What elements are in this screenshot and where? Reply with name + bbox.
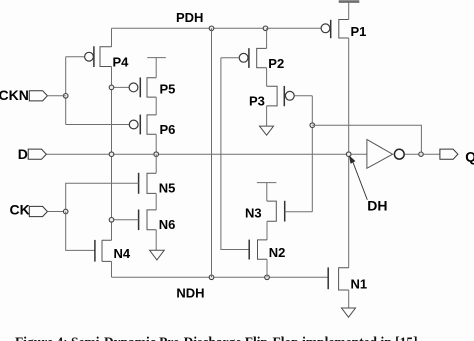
node CK junction bbox=[63, 209, 68, 214]
transistor N2 bbox=[249, 240, 285, 260]
wire DH down to N1 bbox=[348, 154, 350, 268]
wire CKN to P6 gate bbox=[66, 124, 129, 126]
vdd bar P5 bbox=[147, 58, 166, 78]
transistor P4 bbox=[66, 28, 129, 69]
transistor P5 bbox=[112, 58, 176, 98]
wire vertical B (P2/N2 gates) bbox=[221, 58, 249, 250]
svg-text:P5: P5 bbox=[160, 82, 176, 97]
svg-text:N4: N4 bbox=[114, 246, 131, 261]
wire feedback vertical right of P3 bbox=[311, 96, 313, 212]
node PDH-P2 bbox=[263, 26, 268, 31]
svg-text:Q: Q bbox=[465, 148, 474, 164]
wire N5 gate to CK bbox=[66, 183, 139, 211]
transistor P3 bbox=[249, 68, 312, 109]
node X P5 tap bbox=[109, 85, 114, 90]
svg-text:D: D bbox=[18, 146, 28, 162]
node CKN junction bbox=[63, 94, 68, 99]
wire PDH rail bbox=[112, 27, 321, 29]
wire P1 drain to DH bbox=[348, 38, 350, 154]
wire P6 drain to D line bbox=[155, 134, 157, 154]
svg-text:CKN: CKN bbox=[0, 87, 29, 103]
vdd bar P1 bbox=[339, 0, 360, 3]
svg-text:P3: P3 bbox=[249, 94, 265, 109]
wire CK vertical to N4 gate bbox=[66, 212, 95, 251]
wire P4 source from rail bbox=[111, 28, 113, 47]
wire P5-P6 bbox=[155, 97, 157, 115]
svg-text:P1: P1 bbox=[351, 24, 367, 39]
svg-text:N2: N2 bbox=[269, 245, 286, 260]
transistor N3 bbox=[245, 183, 312, 222]
node D-X bbox=[109, 152, 114, 157]
DH pointer arrow bbox=[349, 155, 388, 213]
wire N6 gate to node X bbox=[112, 219, 139, 221]
svg-text:CK: CK bbox=[10, 201, 30, 217]
vdd bar N3 bbox=[257, 183, 277, 202]
svg-text:NDH: NDH bbox=[176, 285, 204, 300]
svg-text:N5: N5 bbox=[159, 180, 176, 195]
node X N6 tap bbox=[109, 218, 114, 223]
wire D/DH line bbox=[46, 153, 367, 155]
node D-Y bbox=[154, 152, 159, 157]
ground under P3 bbox=[260, 106, 274, 135]
wire P4 gate to CKN line bbox=[66, 56, 85, 58]
wire P5 gate from node X bbox=[112, 86, 129, 88]
svg-text:PDH: PDH bbox=[176, 10, 203, 25]
wire N4 source to NDH bbox=[111, 261, 113, 277]
port CK bbox=[10, 201, 66, 217]
svg-text:N3: N3 bbox=[245, 205, 262, 220]
port CKN bbox=[0, 87, 66, 103]
wire NDH rail bbox=[112, 276, 329, 278]
svg-text:P4: P4 bbox=[113, 55, 130, 70]
wire N3 source to N2 bbox=[266, 221, 268, 240]
transistor P2 bbox=[221, 28, 284, 71]
wire P1 source bbox=[348, 2, 350, 20]
figure caption (cut off at bottom) bbox=[15, 335, 474, 341]
svg-text:N1: N1 bbox=[351, 276, 368, 291]
wire N2 source to NDH bbox=[266, 259, 268, 277]
node DH bbox=[346, 152, 351, 157]
transistor P1 bbox=[321, 2, 366, 40]
node feedback bbox=[310, 123, 315, 128]
port Q bbox=[440, 148, 474, 164]
wire P4 drain down node X bbox=[111, 67, 113, 241]
svg-text:P6: P6 bbox=[160, 122, 176, 137]
wire CKN vertical bbox=[65, 57, 67, 125]
wire feedback top bbox=[312, 125, 421, 154]
ground under N1 bbox=[342, 290, 356, 317]
node NDH-N2 bbox=[265, 275, 270, 280]
transistor N6 bbox=[112, 193, 176, 232]
transistor N5 bbox=[66, 154, 176, 211]
inverter U1 bbox=[367, 140, 440, 169]
wire N3 gate bbox=[285, 211, 313, 213]
ground under N6 bbox=[150, 230, 165, 260]
node NDH-A bbox=[209, 275, 214, 280]
wire vertical A (PDH-NDH) bbox=[211, 28, 213, 277]
transistor N1 bbox=[328, 267, 367, 291]
port D bbox=[18, 146, 47, 162]
svg-text:N6: N6 bbox=[159, 217, 176, 232]
transistor P6 bbox=[129, 97, 175, 137]
svg-text:P2: P2 bbox=[268, 56, 284, 71]
transistor N4 bbox=[95, 240, 131, 262]
svg-text:DH: DH bbox=[367, 198, 387, 214]
node PDH-A bbox=[209, 26, 214, 31]
